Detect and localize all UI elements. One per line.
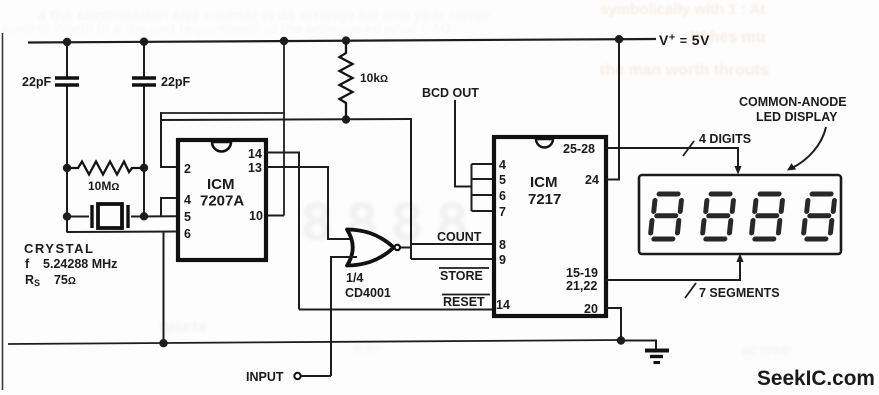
node dot C1/R 10M [63,164,71,172]
wire: V+ riser down to pin 24 [606,40,619,180]
wire: STORE to pin 9 [411,258,492,260]
svg-text:7 SEGMENTS: 7 SEGMENTS [699,286,780,300]
svg-text:LED DISPLAY: LED DISPLAY [756,110,838,124]
wire: pin6 line from left node [67,231,177,234]
svg-text:5: 5 [184,210,191,224]
wire: V+ riser to pin10 jog (x=284) [283,41,285,216]
node dot bottom rail / pin20 [617,336,625,344]
wire: 4 DIGITS line with arrow [620,148,738,170]
wire C1 top [66,41,68,77]
IC U3 notch [536,139,553,148]
INPUT terminal circle [294,373,300,379]
curved arrow to display [792,127,826,168]
svg-text:f 5.24288 MHz: f 5.24288 MHz [25,257,117,271]
capacitor C2 22pF [132,76,156,80]
svg-text:aCTPhlr: aCTPhlr [742,343,792,358]
svg-text:13: 13 [248,161,262,175]
wire: gate input B from INPUT [331,257,357,376]
slash on 7 SEGMENTS bus [685,283,696,298]
resistor R2 10k (vertical zigzag) [340,41,353,120]
svg-text:22pF: 22pF [161,75,191,89]
bottom rail wire [8,340,621,344]
svg-text:2: 2 [184,162,191,176]
node dot rail/C1 [63,38,71,46]
ghost letters behind gate area [160,192,792,358]
svg-text:7217: 7217 [528,191,561,208]
svg-text:22pF: 22pF [22,75,52,89]
svg-text:STORE: STORE [440,269,483,283]
svg-text:10MΩ: 10MΩ [88,179,119,193]
svg-text:ICM: ICM [530,174,558,191]
wire: ground stub [621,341,656,350]
node dot rail/V+ riser to 7217 [615,35,623,43]
wire: 7 SEGMENTS line with arrow [606,258,740,280]
wire: pin 25-28 stub to V+ riser [606,147,620,149]
svg-text:14: 14 [496,298,510,312]
wire: RESET run to 7217 pin14 [299,309,492,311]
svg-text:4 DIGITS: 4 DIGITS [699,132,751,146]
ghost bleed-through text row top-left [2,7,490,36]
wire: BCD OUT stem [455,100,472,187]
svg-text:20: 20 [584,302,598,316]
wire C1 bottom to crystal node [66,87,68,233]
node dot C2/R 10M [140,164,148,172]
IC U1 ICM7207A body [178,140,266,260]
svg-text:SeekIC.com: SeekIC.com [757,367,875,390]
NOR gate U2 [347,230,394,266]
svg-text:control Worth in a the and req: control Worth in a the and requirement o… [2,20,451,36]
wire: pin4 jog [161,198,177,216]
svg-text:GHATA: GHATA [160,319,208,335]
svg-text:ICM: ICM [207,176,235,193]
svg-text:the man worth throuts: the man worth throuts [600,62,769,79]
resistor R1 10M (horizontal zigzag) [67,162,144,175]
ghost bleed-through text top-right (warm tint) [600,1,769,79]
wire: output bus vertical x=412 [410,118,412,259]
svg-text:10: 10 [249,209,263,223]
svg-text:COMMON-ANODE: COMMON-ANODE [739,95,847,109]
svg-text:5: 5 [499,173,506,187]
node dot rail/R 10k [342,36,350,44]
svg-text:CRYSTAL: CRYSTAL [24,241,94,256]
wire: pin 20 to ground [606,308,621,341]
svg-text:15-19: 15-19 [566,266,598,280]
V+ power rail [28,39,656,43]
slash on 4 DIGITS bus [683,141,694,156]
svg-text:9: 9 [499,253,506,267]
capacitor C1 22pF [55,76,79,80]
svg-text:24: 24 [585,173,599,187]
7-segment digit 3 [751,194,783,239]
wire: upper loop y=113 (pin2 riser to V+ riser) [161,112,284,114]
wire: pin10 jog [266,215,284,217]
svg-text:7: 7 [499,205,506,219]
wire: pin6 drop to bottom rail [163,232,165,344]
svg-text:CD4001: CD4001 [345,286,391,300]
svg-text:6: 6 [184,227,191,241]
wire: BCD stub pin6 [472,194,493,196]
wire: BCD stub pin5 [472,178,493,180]
svg-text:COUNT: COUNT [437,230,482,244]
wire: pin14 to RESET riser [266,153,299,310]
wire: gate output [401,247,413,249]
svg-text:21,22: 21,22 [566,279,597,293]
ground symbol [645,349,669,353]
wire: pin13 to gate input A [266,167,356,239]
crystal Y1 [67,216,89,218]
svg-text:8: 8 [499,238,506,252]
svg-text:25-28: 25-28 [563,142,595,156]
svg-text:6: 6 [499,189,506,203]
wire: pin 2 stub [160,166,177,168]
svg-text:symbolically with 1 : At: symbolically with 1 : At [600,1,765,18]
scan page-edge border line left [2,33,4,390]
7-segment digit 2 [702,194,734,239]
wire: 10k feed line y=120 [161,119,410,120]
wire: COUNT to pin 8 [411,243,492,245]
svg-text:RS 75Ω: RS 75Ω [25,273,76,288]
wire C2 bottom to crystal right node [143,87,145,218]
NOR gate bubble [395,245,400,250]
svg-text:7207A: 7207A [200,193,244,210]
node dot bottom rail / pin6 drop [159,339,167,347]
wire C2 top [143,41,145,77]
svg-text:V+ = 5V: V+ = 5V [659,32,710,49]
IC U3 ICM7217 body [494,137,606,316]
svg-text:INPUT: INPUT [246,370,284,384]
7-segment digit 1 [650,194,682,239]
node dot rail/C2 [140,38,148,46]
node dot C2/crystal wire [140,212,148,220]
node dot rail/pin10 riser [280,37,288,45]
svg-text:4: 4 [499,158,506,172]
wire: BCD bus vertical [471,164,473,211]
wire: BCD stub pin4 [472,163,493,165]
LED display DS1 bezel [639,175,841,254]
svg-text:4: 4 [184,193,191,207]
node dot C1/crystal [63,212,71,220]
node dot 10k bottom [342,115,350,123]
wire: pin2 riser vertical [160,112,162,167]
svg-text:1/4: 1/4 [346,271,363,285]
svg-text:14: 14 [248,147,262,161]
svg-text:10kΩ: 10kΩ [360,71,388,85]
svg-text:RESET: RESET [443,295,485,309]
7-segment digit 4 [803,194,835,239]
wire: INPUT stub [301,375,331,377]
IC U1 notch [212,142,231,152]
svg-text:BCD OUT: BCD OUT [422,86,479,100]
wire: BCD stub pin7 [472,210,493,212]
